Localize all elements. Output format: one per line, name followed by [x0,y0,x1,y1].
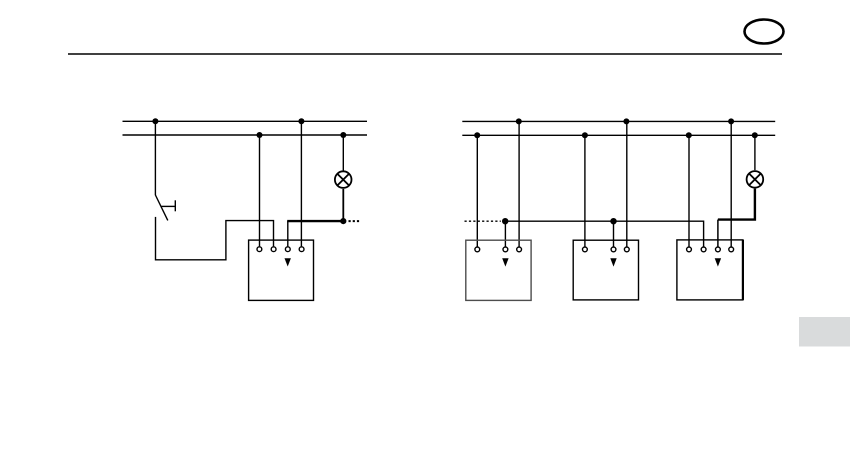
junction on top bus at U3 pin 3 [623,118,629,124]
control unit U2 [466,240,531,300]
U1 pin 1 [257,247,262,252]
junction on control link at U2 pin 2 [502,218,508,224]
U2 arrow marker [502,258,508,266]
wire: bottom bus to U3 pin 1 [584,135,586,246]
U4 pin 2 [701,247,706,252]
junction on bottom bus at U4 pin 1 [686,132,692,138]
wire: top bus to U3 pin 3 [626,121,628,246]
U1 pin 4 [299,247,304,252]
control unit U4 [677,240,743,300]
junction on bottom bus at lamp E2 [752,132,758,138]
wire: right top bus L [462,120,775,122]
control unit U3 [573,240,638,300]
junction on bottom bus at U2 pin 1 [474,132,480,138]
wire: bottom bus to lamp E1 [342,135,344,171]
U4 right edge (heavy) [742,240,744,300]
wire: load line (thick) to U1 pin 3 [287,221,289,246]
wire: control link U2 to U4 [505,221,703,246]
wire: bottom bus to U2 pin 1 [476,135,478,246]
wire: lamp E1 to load line [342,189,344,221]
U2 pin 3 [517,247,522,252]
wire: left top bus L [123,120,368,122]
wire: bottom bus to U1 pin 1 [259,135,261,246]
junction on bottom bus at lamp E1 drop [340,132,346,138]
junction on bottom bus at U3 pin 1 [582,132,588,138]
U2 pin 1 [475,247,480,252]
header rule [68,53,782,55]
wire: thick load line [287,220,343,222]
U1 arrow marker [285,258,291,266]
junction on top bus at U2 pin 3 [516,118,522,124]
wire: top bus to U1 pin 4 [300,121,302,246]
wire: bottom bus to lamp E2 [754,135,756,170]
lamp E1 [335,171,352,188]
U1 pin 3 [285,247,290,252]
wire: load line dotted continuation [349,220,360,222]
junction on top bus at switch drop [152,118,158,124]
wire: left bottom bus N [123,134,368,136]
junction on top bus at U1 pin 4 drop [298,118,304,124]
logo ellipse [745,20,784,44]
wire: control link to U3 pin 2 [613,221,615,246]
control unit U1 [249,240,314,300]
U3 pin 1 [583,247,588,252]
wire: elbow down to U4 pin 3 [717,220,719,247]
wire: lamp E2 to U4 pin 3 (thick elbow) [718,189,755,220]
U3 arrow marker [610,258,616,266]
junction at lamp E1 on load line [340,218,346,224]
U4 pin 3 [716,247,721,252]
U3 pin 3 [624,247,629,252]
U2 pin 2 [503,247,508,252]
page tab (gray) [799,317,850,347]
wire: top bus to U4 pin 4 [730,121,732,246]
junction on bottom bus at U1 pin 1 drop [257,132,263,138]
lamp E2 [747,171,764,188]
wire: S1 to U1 pin 2 (step run) [156,221,274,260]
junction on top bus at U4 pin 4 [728,118,734,124]
wire: bus to switch S1 [154,121,156,195]
wire: top bus to U2 pin 3 [518,121,520,246]
U4 pin 1 [687,247,692,252]
wire: control link dotted lead-in [465,220,501,222]
wire: bottom bus to U4 pin 1 [688,135,690,246]
wire: control link to U2 pin 2 [504,221,506,246]
push-button S1 [155,195,175,220]
U4 pin 4 [729,247,734,252]
junction on control link at U3 pin 2 [610,218,616,224]
U1 pin 2 [271,247,276,252]
U4 arrow marker [715,258,721,266]
U3 pin 2 [611,247,616,252]
wire: right bottom bus N [462,134,775,136]
wire: S1 lower terminal down [155,217,157,261]
